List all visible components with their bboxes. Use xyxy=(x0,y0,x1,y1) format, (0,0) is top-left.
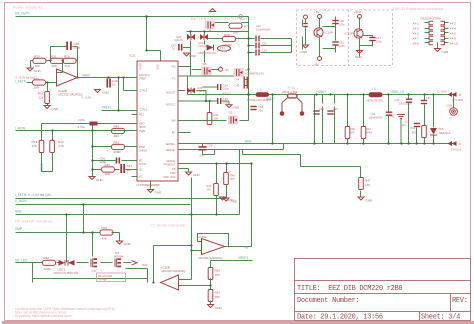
svg-text:HP06030-2R2: HP06030-2R2 xyxy=(367,99,384,103)
svg-text:+SNS_U1: +SNS_U1 xyxy=(390,90,404,94)
svg-text:1K0: 1K0 xyxy=(215,273,221,277)
svg-text:Sheet: 3/4: Sheet: 3/4 xyxy=(421,314,460,322)
svg-text:Q4: Q4 xyxy=(92,269,96,273)
svg-text:SNC+: SNC+ xyxy=(266,97,275,101)
svg-text:I_SETN: 0..-2.5V fsa DAC: I_SETN: 0..-2.5V fsa DAC xyxy=(15,193,53,197)
svg-text:BOOST: BOOST xyxy=(166,91,175,95)
svg-text:20n: 20n xyxy=(259,109,264,113)
svg-text:4.7K: 4.7K xyxy=(58,144,64,148)
svg-text:G2: G2 xyxy=(229,111,233,115)
svg-text:X4-8: X4-8 xyxy=(450,36,457,40)
svg-text:MC33274ADRGQ: MC33274ADRGQ xyxy=(162,269,187,273)
svg-text:86K6: 86K6 xyxy=(366,131,373,135)
svg-text:REV:: REV: xyxy=(452,297,468,305)
svg-text:20n: 20n xyxy=(200,154,205,158)
svg-text:BSS84: BSS84 xyxy=(114,255,124,259)
svg-text:R39: R39 xyxy=(350,127,355,131)
svg-text:DS_OUT+: DS_OUT+ xyxy=(15,11,30,15)
svg-text:STI-0100: STI-0100 xyxy=(451,148,462,152)
svg-text:100n: 100n xyxy=(339,23,345,27)
svg-text:VIN2: VIN2 xyxy=(157,64,160,70)
svg-text:MMSZ4711T1G: MMSZ4711T1G xyxy=(199,51,217,55)
svg-text:INTVCC: INTVCC xyxy=(222,92,232,96)
svg-text:CR4: CR4 xyxy=(79,118,85,122)
svg-text:INTVCC: INTVCC xyxy=(166,103,176,107)
svg-text:R40: R40 xyxy=(366,127,371,131)
svg-text:C45: C45 xyxy=(235,84,240,88)
svg-text:15K: 15K xyxy=(215,295,220,299)
svg-text:1u: 1u xyxy=(112,83,116,87)
svg-text:GND: GND xyxy=(34,69,42,73)
svg-text:DS_LED: DS_LED xyxy=(15,258,28,262)
svg-text:25R: 25R xyxy=(105,172,111,176)
svg-text:DF and DP reference: DF and DP reference xyxy=(15,219,53,224)
svg-text:X4-2: X4-2 xyxy=(450,21,457,25)
svg-text:MC33274ADRGQ: MC33274ADRGQ xyxy=(199,256,224,260)
svg-text:2R2: 2R2 xyxy=(114,134,120,138)
svg-text:GND: GND xyxy=(124,242,132,246)
svg-text:C55: C55 xyxy=(223,97,228,101)
svg-text:120R: 120R xyxy=(44,267,52,271)
svg-text:DAL16: DAL16 xyxy=(175,38,183,42)
svg-text:X4-4: X4-4 xyxy=(450,26,457,30)
svg-text:GND: GND xyxy=(155,191,163,195)
svg-text:20K: 20K xyxy=(52,64,57,68)
svg-text:X4-3: X4-3 xyxy=(413,26,420,30)
svg-text:100nF/630V: 100nF/630V xyxy=(369,116,383,120)
svg-text:0..+30V: 0..+30V xyxy=(438,89,447,93)
svg-text:X4-6: X4-6 xyxy=(450,31,457,35)
svg-text:R48: R48 xyxy=(44,256,50,260)
svg-text:FB: FB xyxy=(244,246,248,250)
svg-text:20K: 20K xyxy=(35,64,40,68)
svg-text:GND: GND xyxy=(227,198,235,202)
svg-text:GND: GND xyxy=(301,50,309,54)
svg-text:CC mode reference: CC mode reference xyxy=(150,223,186,228)
svg-text:C55: C55 xyxy=(208,144,213,148)
svg-text:VREF: VREF xyxy=(140,63,143,70)
svg-text:SENSE-: SENSE- xyxy=(166,148,176,152)
svg-text:29MUS1A: 29MUS1A xyxy=(439,131,451,135)
svg-text:10R: 10R xyxy=(233,31,239,35)
svg-text:TRPBF: TRPBF xyxy=(99,277,108,281)
svg-text:IC10P: IC10P xyxy=(325,31,333,35)
svg-text:MC33272ADRGQ: MC33272ADRGQ xyxy=(59,92,84,96)
svg-text:X4-5: X4-5 xyxy=(413,31,420,35)
svg-text:100n: 100n xyxy=(339,44,345,48)
svg-text:+6V: +6V xyxy=(314,10,319,14)
svg-text:R47: R47 xyxy=(365,179,371,183)
svg-text:X4-9: X4-9 xyxy=(413,41,420,45)
svg-text:R29: R29 xyxy=(64,55,70,59)
svg-text:L5: L5 xyxy=(372,86,377,91)
svg-text:DAL16: DAL16 xyxy=(198,89,206,93)
svg-text:DS1024-2*5R0: DS1024-2*5R0 xyxy=(421,17,442,21)
svg-text:GND: GND xyxy=(355,55,363,59)
svg-text:R35: R35 xyxy=(214,113,219,117)
svg-text:SNS: SNS xyxy=(245,140,252,144)
svg-text:VREF: VREF xyxy=(139,76,146,80)
svg-text:C46: C46 xyxy=(256,24,261,28)
svg-text:X4-10: X4-10 xyxy=(450,41,458,45)
svg-text:100n: 100n xyxy=(223,87,229,91)
svg-text:SW: SW xyxy=(171,119,176,123)
svg-text:ZD5: ZD5 xyxy=(439,127,444,131)
svg-text:GRN/DUAL/BIDCOM: GRN/DUAL/BIDCOM xyxy=(54,271,79,275)
svg-text:GND: GND xyxy=(170,171,176,175)
svg-text:Q7: Q7 xyxy=(245,68,249,72)
svg-text:+SNS+: +SNS+ xyxy=(316,90,326,94)
svg-text:C58: C58 xyxy=(259,105,264,109)
svg-text:DIB-11 Expansion connector: DIB-11 Expansion connector xyxy=(393,6,444,11)
svg-text:X4-7: X4-7 xyxy=(413,36,420,40)
svg-text:GND: GND xyxy=(52,107,60,111)
svg-text:R31: R31 xyxy=(51,55,57,59)
svg-text:Q5: Q5 xyxy=(203,62,207,66)
svg-text:R48: R48 xyxy=(230,174,235,178)
svg-text:GND_PAD: GND_PAD xyxy=(163,175,175,179)
svg-text:+3V3: +3V3 xyxy=(354,10,361,14)
svg-text:C52: C52 xyxy=(262,42,267,46)
svg-text:C53: C53 xyxy=(262,49,267,53)
svg-text:R46: R46 xyxy=(207,184,212,188)
svg-text:C49: C49 xyxy=(333,107,338,111)
svg-text:0..+1.5V: 0..+1.5V xyxy=(82,96,92,100)
svg-text:R49: R49 xyxy=(114,125,120,129)
svg-text:20R: 20R xyxy=(34,86,40,90)
svg-text:R45: R45 xyxy=(105,163,111,167)
svg-text:GND: GND xyxy=(215,306,223,310)
svg-text:100p: 100p xyxy=(74,46,81,50)
svg-text:BG: BG xyxy=(172,131,176,135)
svg-text:SYNC: SYNC xyxy=(139,162,146,166)
svg-text:GND: GND xyxy=(366,199,374,203)
svg-text:C37: C37 xyxy=(426,96,431,100)
svg-text:R011 2.5W: R011 2.5W xyxy=(283,90,298,94)
svg-text:100n: 100n xyxy=(223,101,229,105)
svg-text:X4-1: X4-1 xyxy=(413,21,420,25)
svg-text:DAL16: DAL16 xyxy=(199,44,207,48)
svg-text:R50: R50 xyxy=(215,269,221,273)
svg-text:C81: C81 xyxy=(339,41,344,45)
svg-text:DMP: DMP xyxy=(15,227,22,231)
svg-text:IC13C: IC13C xyxy=(199,235,208,239)
svg-text:R30: R30 xyxy=(34,55,40,59)
svg-text:PWM: PWM xyxy=(139,129,145,133)
svg-text:CN1: CN1 xyxy=(447,104,453,108)
svg-text:-6V: -6V xyxy=(314,63,319,67)
svg-text:4u7: 4u7 xyxy=(127,168,132,172)
svg-text:FB: FB xyxy=(172,167,176,171)
svg-text:Document Number:: Document Number: xyxy=(297,297,359,305)
svg-text:R51: R51 xyxy=(215,291,221,295)
svg-text:12K: 12K xyxy=(365,183,370,187)
svg-text:C61: C61 xyxy=(371,112,376,116)
svg-text:R78: R78 xyxy=(244,25,250,29)
svg-text:PE: PE xyxy=(391,115,395,119)
svg-text:VC: VC xyxy=(139,175,143,179)
svg-text:-3V3: -3V3 xyxy=(141,263,148,267)
svg-text:GND: GND xyxy=(233,106,241,110)
svg-text:SNS: SNS xyxy=(15,210,22,214)
svg-text:SS: SS xyxy=(139,168,143,172)
svg-text:100nF/NoPb: 100nF/NoPb xyxy=(256,28,271,32)
svg-text:I_SETP: I_SETP xyxy=(15,80,26,84)
svg-text:C47: C47 xyxy=(376,36,381,40)
svg-text:ETI-4500: ETI-4500 xyxy=(453,98,464,102)
svg-text:TITLE: EEZ DIB DCM220 r2B8: TITLE: EEZ DIB DCM220 r2B8 xyxy=(297,285,402,293)
svg-text:3.9n/2000V: 3.9n/2000V xyxy=(399,102,413,106)
svg-text:R41: R41 xyxy=(411,126,416,130)
svg-text:GND: GND xyxy=(442,50,450,54)
svg-text:47K: 47K xyxy=(32,144,37,148)
svg-text:GMON: GMON xyxy=(139,148,147,152)
svg-text:IMON: IMON xyxy=(139,125,146,129)
svg-text:3K3: 3K3 xyxy=(207,188,212,192)
svg-text:CTRL2: CTRL2 xyxy=(139,89,148,93)
svg-text:GND: GND xyxy=(193,173,201,177)
svg-text:100n: 100n xyxy=(376,40,382,44)
svg-text:FB2: FB2 xyxy=(139,113,144,117)
svg-text:IC12P: IC12P xyxy=(345,32,353,36)
svg-text:U_MON: U_MON xyxy=(15,199,27,203)
svg-text:Repository: https://github.com: Repository: https://github.com/eez-open xyxy=(15,314,72,318)
svg-text:VREF1: VREF1 xyxy=(102,106,113,110)
svg-text:VREF: VREF xyxy=(82,73,91,77)
svg-text:C39: C39 xyxy=(319,107,324,111)
svg-text:LED1: LED1 xyxy=(58,268,66,272)
svg-text:CTRL1: CTRL1 xyxy=(139,108,148,112)
svg-text:ACGMBPSLY4G: ACGMBPSLY4G xyxy=(245,72,264,76)
svg-text:VIN: VIN xyxy=(171,65,175,69)
svg-text:L3: L3 xyxy=(257,87,262,92)
svg-text:LT3763EFE#PBF: LT3763EFE#PBF xyxy=(137,183,160,187)
svg-text:100n: 100n xyxy=(401,123,407,127)
svg-text:Date: 29.1.2020, 13:56: Date: 29.1.2020, 13:56 xyxy=(297,314,383,322)
svg-text:GND: GND xyxy=(96,178,104,182)
svg-text:C54: C54 xyxy=(223,83,228,87)
svg-text:47K: 47K xyxy=(102,237,107,241)
svg-text:C62: C62 xyxy=(405,120,410,124)
svg-text:10K: 10K xyxy=(214,117,219,121)
svg-text:SENSE+: SENSE+ xyxy=(165,142,176,146)
svg-text:C44: C44 xyxy=(235,78,240,82)
svg-text:-6V: -6V xyxy=(225,68,230,72)
svg-text:IC11: IC11 xyxy=(130,54,136,58)
svg-text:20K: 20K xyxy=(350,131,355,135)
svg-text:SERIAL: SERIAL xyxy=(166,159,176,163)
svg-text:GND: GND xyxy=(189,54,197,58)
svg-text:GND: GND xyxy=(102,91,110,95)
svg-text:TG: TG xyxy=(172,77,176,81)
svg-text:R42: R42 xyxy=(114,141,120,145)
svg-text:VREF1: VREF1 xyxy=(238,256,249,260)
svg-text:Power supply #1: Power supply #1 xyxy=(13,5,43,10)
svg-text:PWMOUT: PWMOUT xyxy=(164,163,176,167)
svg-text:499R: 499R xyxy=(114,150,122,154)
svg-text:I_MON: I_MON xyxy=(15,126,26,130)
svg-text:3K0: 3K0 xyxy=(412,131,417,135)
svg-text:AGND: AGND xyxy=(40,163,44,173)
svg-text:R76: R76 xyxy=(102,226,108,230)
svg-text:R28: R28 xyxy=(224,33,230,37)
svg-text:12K: 12K xyxy=(65,64,70,68)
svg-text:3K5: 3K5 xyxy=(230,177,235,181)
svg-text:C48: C48 xyxy=(339,19,344,23)
svg-text:4.70p: 4.70p xyxy=(78,125,86,129)
svg-text:12K: 12K xyxy=(39,96,44,100)
svg-text:22V: 22V xyxy=(220,47,227,51)
